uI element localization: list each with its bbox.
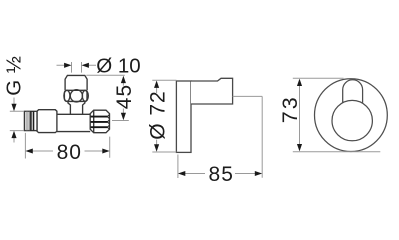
svg-text:Ø 72: Ø 72	[146, 90, 169, 140]
svg-text:73: 73	[278, 95, 302, 123]
svg-text:G ½: G ½	[3, 56, 26, 96]
svg-text:45: 45	[113, 84, 136, 109]
svg-text:80: 80	[57, 141, 82, 164]
svg-text:85: 85	[209, 163, 234, 186]
svg-text:Ø 10: Ø 10	[96, 55, 140, 78]
